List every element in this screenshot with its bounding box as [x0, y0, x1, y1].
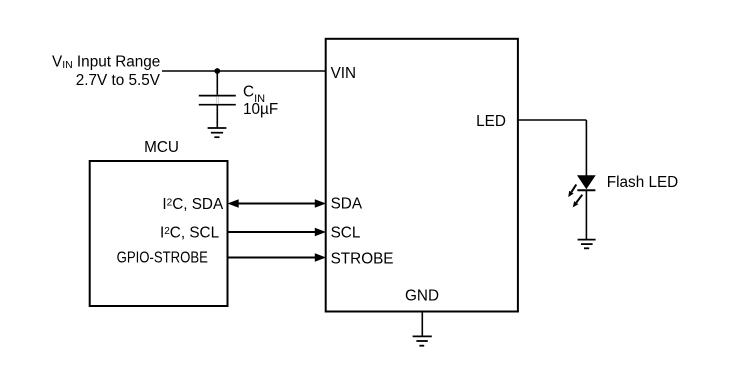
svg-text:10µF: 10µF: [243, 101, 278, 118]
MCU box: [90, 161, 228, 306]
wire LED cathode lead: [585, 190, 587, 239]
wire capacitor top lead: [216, 71, 218, 95]
wire capacitor bottom lead: [216, 106, 218, 129]
svg-text:STROBE: STROBE: [331, 250, 394, 267]
capacitor C_IN plates: [199, 96, 236, 105]
wire SDA bidirectional arrow: [228, 199, 327, 208]
svg-text:SDA: SDA: [331, 196, 363, 213]
wire LED anode vertical: [585, 120, 587, 176]
ground (capacitor): [208, 128, 227, 137]
svg-text:SCL: SCL: [331, 224, 361, 241]
wire SCL arrow: [228, 228, 327, 237]
node junction dot: [214, 68, 220, 74]
svg-text:MCU: MCU: [144, 139, 179, 156]
svg-text:LED: LED: [476, 113, 506, 130]
svg-text:GPIO-STROBE: GPIO-STROBE: [117, 250, 208, 267]
wire VIN input: [162, 70, 325, 72]
svg-text:I2C, SCL: I2C, SCL: [160, 225, 219, 242]
svg-text:GND: GND: [405, 287, 439, 304]
LED D1 diode triangle: [577, 175, 596, 189]
op-amp U1 main IC box: [326, 39, 518, 312]
wire STROBE arrow: [228, 253, 327, 262]
ground (LED): [578, 240, 596, 249]
wire LED pin horizontal: [518, 119, 586, 121]
svg-text:I2C, SDA: I2C, SDA: [162, 196, 224, 213]
wire GND stub: [421, 312, 423, 337]
svg-text:Flash LED: Flash LED: [607, 174, 678, 191]
light emission arrow 1: [568, 185, 576, 198]
svg-text:VIN: VIN: [331, 65, 357, 82]
svg-text:2.7V to 5.5V: 2.7V to 5.5V: [76, 72, 161, 89]
light emission arrow 2: [573, 195, 583, 208]
ground (main IC): [413, 336, 432, 345]
LED cathode bar: [577, 189, 595, 191]
